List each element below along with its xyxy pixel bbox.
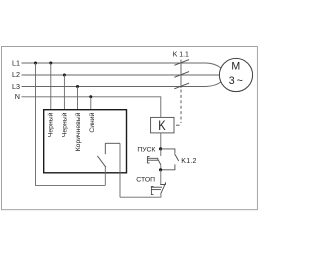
contact K1.2 blade — [175, 154, 179, 162]
svg-text:Черный: Черный — [60, 112, 68, 137]
contact K1.1 pole 3 — [174, 83, 189, 89]
wire L2 bus — [22, 74, 220, 76]
internal relay contact blade — [97, 156, 105, 167]
start button blade — [157, 158, 161, 165]
stop button plunger line 2 — [151, 189, 161, 191]
contact K1.2 branch bottom — [161, 164, 175, 169]
stop button plunger line 1 — [151, 186, 162, 188]
wire black2 drop into box — [63, 75, 65, 110]
start button cap bracket — [147, 157, 149, 163]
svg-text:ПУСК: ПУСК — [137, 146, 155, 153]
wire black1 drop into box — [50, 63, 52, 110]
contact K1.2 branch top — [161, 149, 175, 153]
svg-text:3 ~: 3 ~ — [229, 75, 243, 87]
border frame — [2, 47, 258, 210]
stop button cap bracket — [151, 186, 153, 194]
svg-text:L1: L1 — [12, 58, 20, 67]
internal relay contact fixed terminal — [104, 143, 106, 154]
node B dot — [159, 168, 162, 171]
svg-text:Коричневый: Коричневый — [74, 112, 82, 151]
junction dot N — [89, 95, 92, 98]
svg-text:K 1.1: K 1.1 — [173, 51, 189, 58]
wire blade stub through box bottom — [104, 167, 106, 186]
start button wire lower — [160, 165, 162, 170]
svg-text:СТОП: СТОП — [136, 176, 155, 183]
svg-text:Черный: Черный — [47, 112, 55, 137]
wire L3 bus — [22, 82, 221, 87]
node A dot — [159, 147, 162, 150]
svg-text:L3: L3 — [12, 82, 20, 91]
linkage dash toward K box — [176, 124, 180, 126]
internal relay contact top bar — [105, 142, 120, 144]
wire blue drop into box — [90, 97, 92, 110]
start button plunger line 1 — [147, 157, 158, 159]
start button wire upper — [160, 149, 162, 156]
linkage dashed to coil K — [180, 90, 182, 124]
svg-text:M: M — [231, 61, 240, 73]
wire relay output down — [119, 143, 121, 197]
svg-text:N: N — [15, 92, 20, 101]
svg-text:K1.2: K1.2 — [181, 158, 196, 165]
stop button blade — [161, 183, 166, 194]
stop button wire upper — [160, 170, 162, 184]
junction dot L3 — [76, 85, 79, 88]
contact K1.1 pole 1 — [174, 60, 189, 66]
svg-text:Синий: Синий — [88, 112, 96, 132]
relay device box — [44, 110, 127, 173]
wire L1 bus — [22, 63, 221, 68]
wire brown drop into box — [77, 87, 79, 110]
svg-text:K: K — [158, 118, 166, 134]
wire L1 bypass drop — [36, 63, 106, 185]
wire bottom return to stop button — [120, 194, 161, 198]
motor M1 circle — [219, 58, 252, 91]
junction dot L1-b — [49, 62, 52, 65]
coil K box — [151, 117, 174, 132]
stop button fixed bar — [160, 182, 165, 184]
contact K1.1 pole 2 — [174, 72, 189, 78]
wire coil K to node A — [160, 133, 162, 149]
junction dot L2 — [63, 74, 66, 77]
svg-text:L2: L2 — [12, 70, 20, 79]
wire N bus — [22, 97, 161, 118]
linkage solid segment through poles — [180, 60, 182, 89]
start button plunger line 2 — [147, 159, 158, 161]
junction dot L1-a — [34, 62, 37, 65]
